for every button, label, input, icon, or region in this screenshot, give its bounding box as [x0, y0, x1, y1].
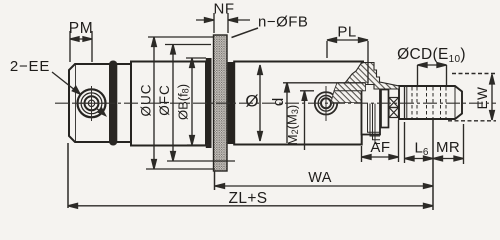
head section hatch band lower [331, 91, 361, 103]
dimension FC [165, 45, 235, 162]
gland skirt steps [368, 104, 381, 144]
gland nut block A [362, 84, 381, 135]
dimension PL [327, 38, 368, 83]
extension line cap face [67, 143, 69, 208]
rod thread dashed lines [412, 87, 446, 118]
extension line rod stroke end [432, 120, 434, 210]
dimension PM [70, 31, 92, 62]
port 1 crosshair [91, 86, 93, 121]
svg-text:ØFC: ØFC [157, 84, 172, 116]
dimension M2(M3) [300, 91, 314, 150]
svg-text:2−EE: 2−EE [10, 58, 50, 75]
o-ring band [109, 61, 117, 146]
dimension d [283, 83, 366, 144]
cylinder tube [131, 62, 206, 146]
svg-text:n−ØFB: n−ØFB [258, 14, 308, 31]
rod chamfer line [454, 86, 456, 119]
pilot band B(f8) [206, 58, 212, 148]
port 2 crosshair [325, 86, 327, 121]
svg-text:PL: PL [337, 24, 356, 41]
dimension AF [362, 120, 399, 162]
flange [214, 35, 228, 171]
port 2-EE circles [78, 89, 106, 117]
dimension EW [490, 75, 495, 121]
svg-text:MR: MR [436, 139, 460, 156]
head top lip [355, 61, 364, 63]
rod wiper hatched section [345, 63, 399, 90]
leader 2-EE [52, 72, 106, 116]
dimension CD(E10) [418, 63, 447, 85]
dimension phi bore [258, 65, 263, 141]
dimension ZL+S [68, 203, 433, 208]
cap chamfer line [75, 64, 77, 142]
cylinder rear cap [69, 64, 131, 142]
svg-text:WA: WA [308, 170, 332, 186]
head section hatch band upper [334, 83, 366, 91]
head port circles [315, 92, 337, 114]
dimension L6 [405, 122, 434, 163]
gland band right of flange [228, 62, 235, 144]
rod shoulder lines [404, 86, 406, 119]
leader n-FB [232, 28, 259, 38]
dimension UC [146, 37, 215, 169]
dimension MR [433, 124, 464, 164]
svg-text:ZL+S: ZL+S [228, 190, 267, 207]
svg-text:ØUC: ØUC [139, 84, 154, 117]
cylinder head block [234, 62, 362, 145]
svg-text:AF: AF [370, 139, 390, 156]
rod bushing block B [381, 90, 389, 128]
seal box lower [389, 108, 399, 118]
dashed EW extension bottom [448, 120, 496, 122]
seal box upper [389, 98, 399, 108]
svg-text:NF: NF [214, 1, 235, 18]
svg-text:PM: PM [69, 20, 93, 37]
main centerline [55, 102, 496, 104]
piston rod [399, 86, 462, 119]
svg-text:EW: EW [475, 87, 490, 110]
extension line flange face [214, 171, 216, 190]
dimension NF [196, 13, 250, 33]
dashed EW extension top [452, 73, 496, 75]
dimension B(f8) [186, 58, 209, 145]
dimension WA [215, 184, 433, 189]
svg-text:Ø: Ø [245, 91, 258, 110]
